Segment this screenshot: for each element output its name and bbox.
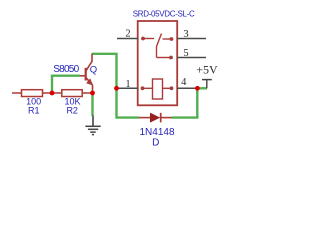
svg-text:4: 4 xyxy=(181,77,187,88)
svg-text:Q: Q xyxy=(90,64,97,75)
svg-text:S8050: S8050 xyxy=(53,64,79,75)
svg-text:1: 1 xyxy=(125,79,130,90)
svg-text:3: 3 xyxy=(183,29,188,40)
svg-text:5: 5 xyxy=(183,48,188,59)
svg-text:+5V: +5V xyxy=(196,62,218,76)
svg-text:SRD-05VDC-SL-C: SRD-05VDC-SL-C xyxy=(133,9,195,18)
svg-text:R2: R2 xyxy=(66,106,78,116)
svg-text:2: 2 xyxy=(125,29,130,40)
svg-text:D: D xyxy=(152,138,159,149)
svg-text:R1: R1 xyxy=(28,106,40,116)
